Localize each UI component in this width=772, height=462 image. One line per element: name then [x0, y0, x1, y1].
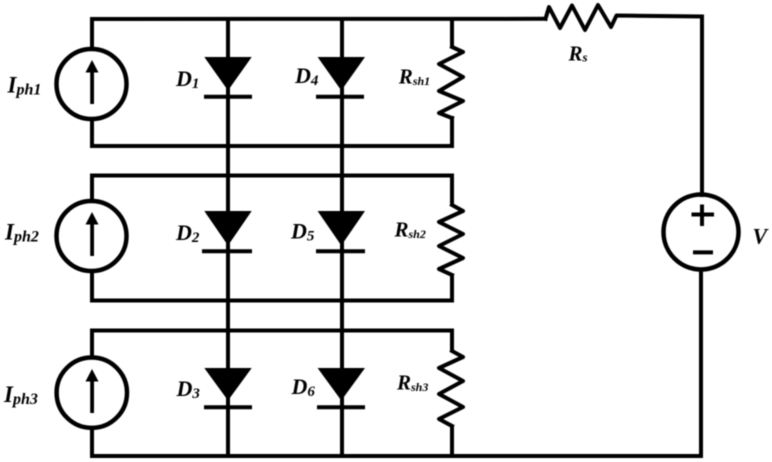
svg-text:V: V: [753, 224, 770, 249]
